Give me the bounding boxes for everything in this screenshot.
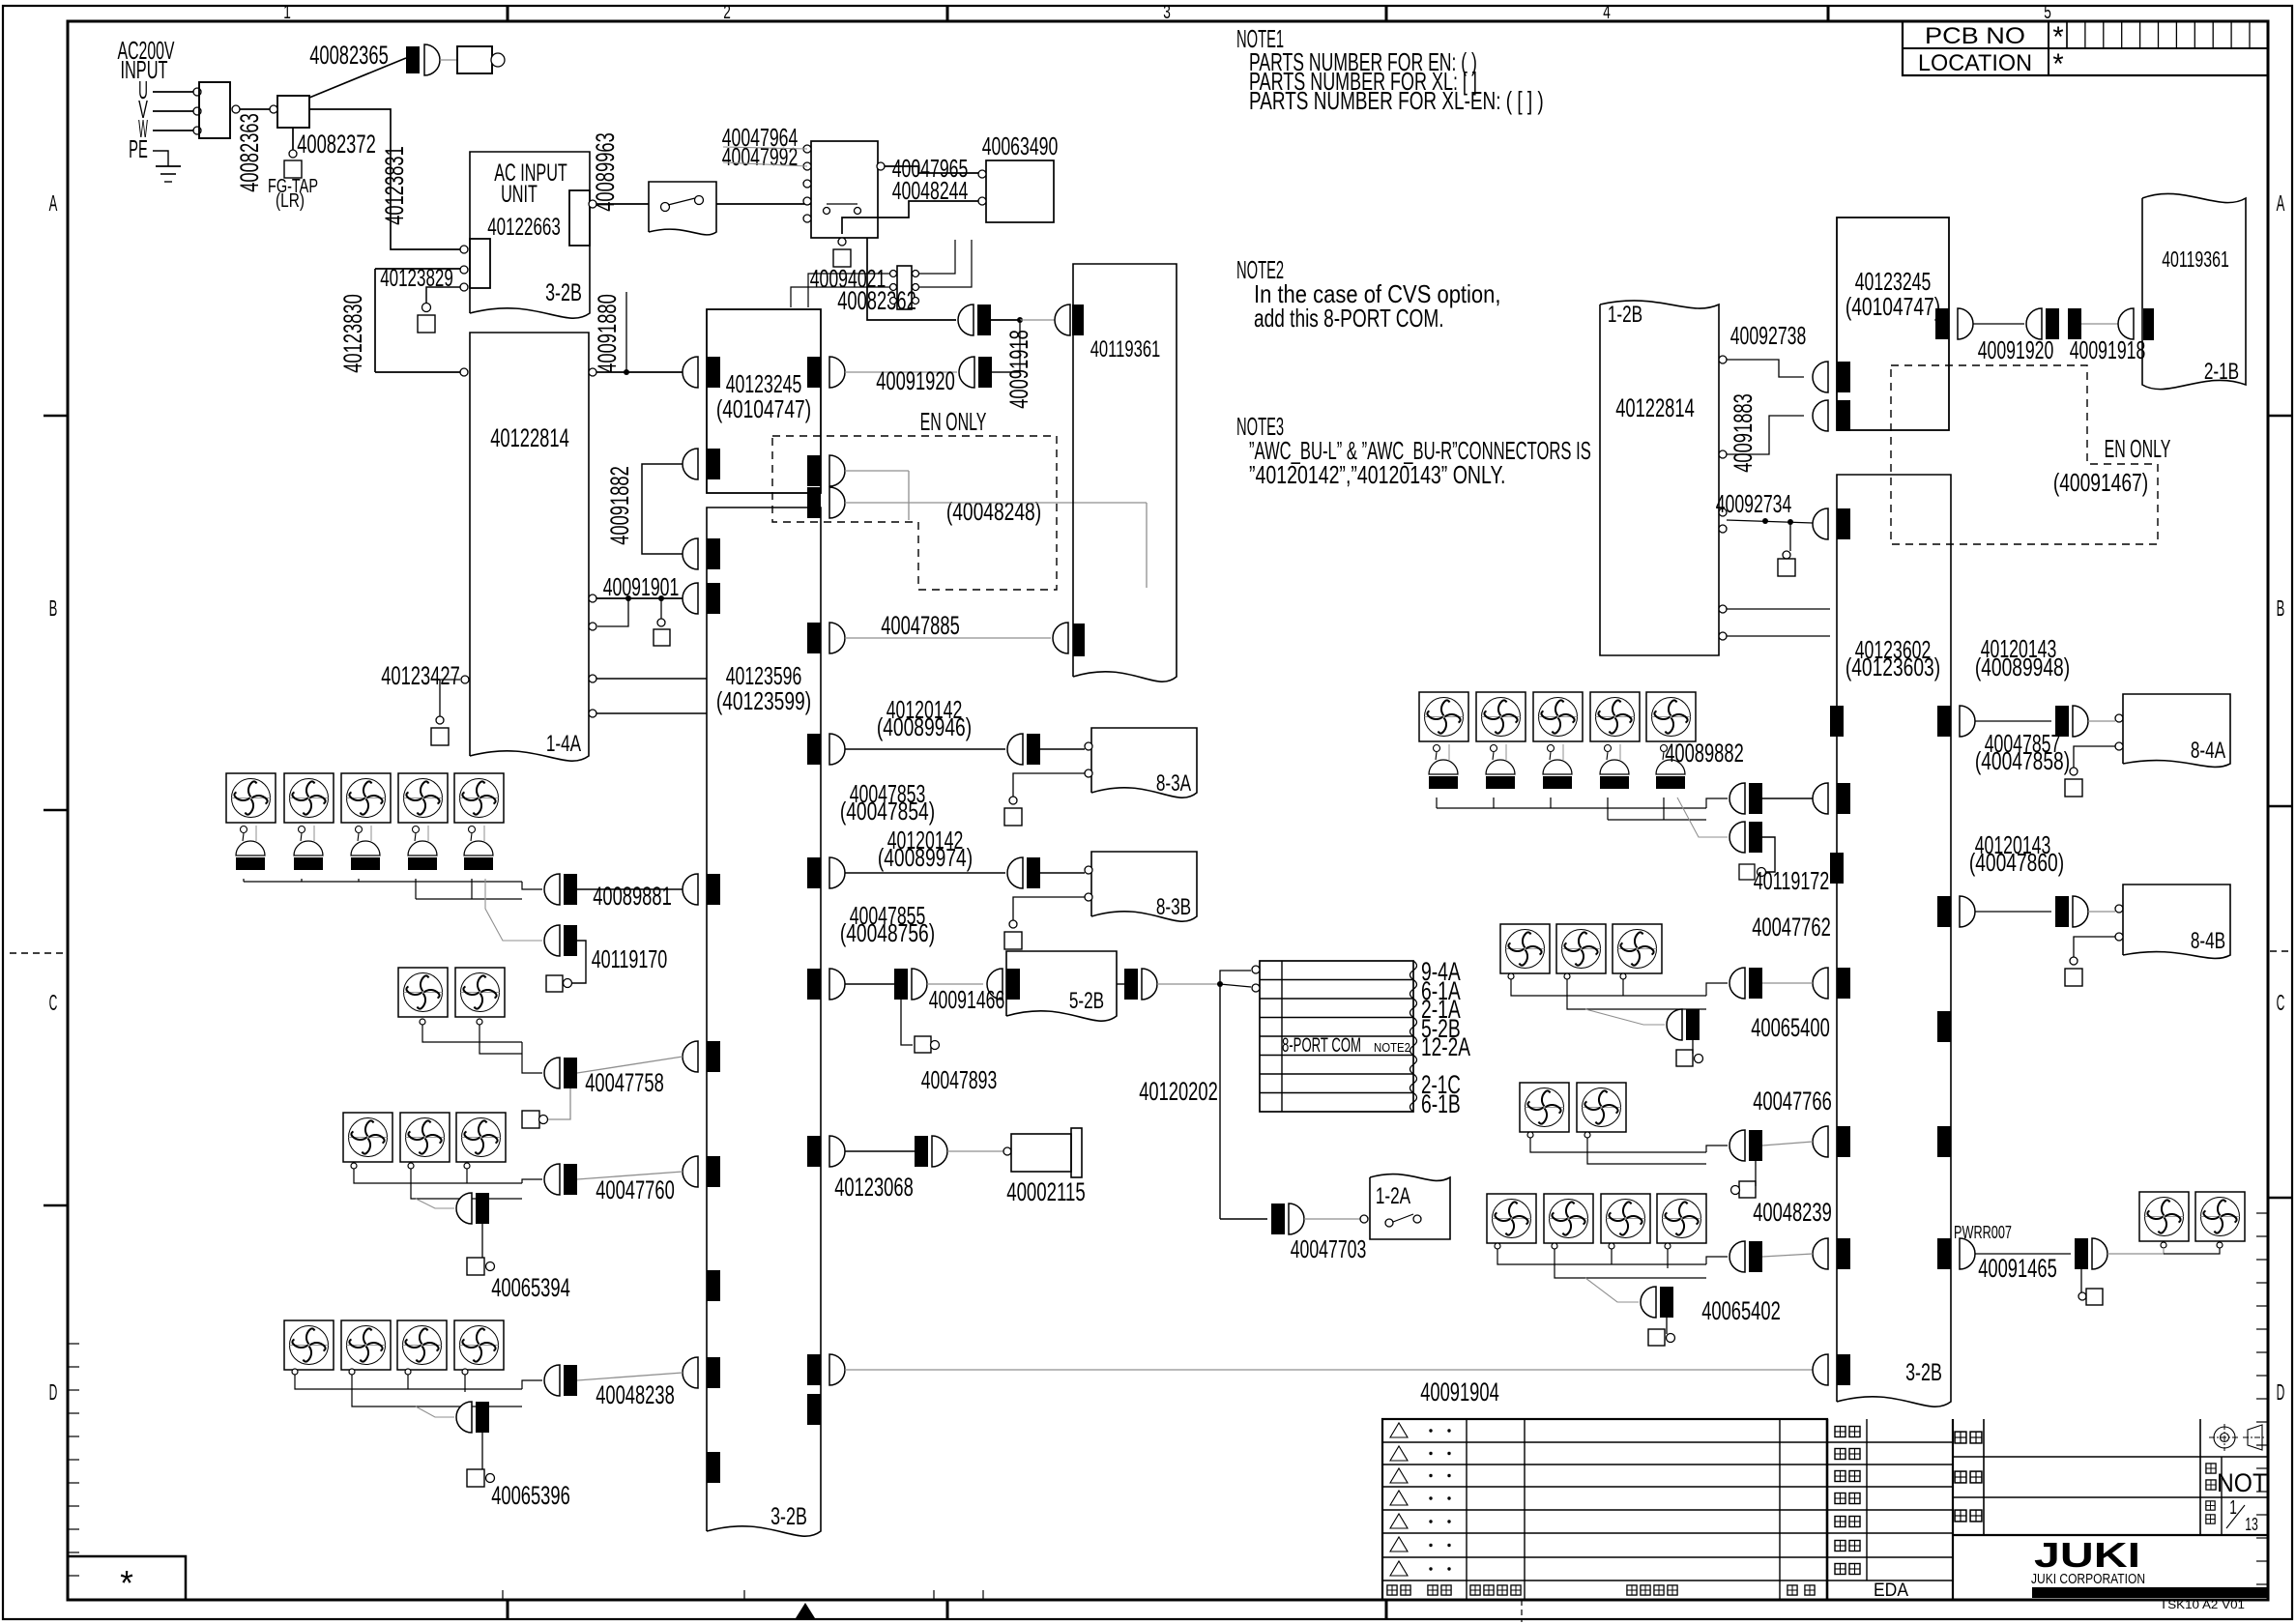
svg-text:(40104747): (40104747) <box>1846 292 1940 321</box>
svg-text:3-2B: 3-2B <box>545 279 582 306</box>
svg-text:40092738: 40092738 <box>1730 321 1807 350</box>
svg-text:NOTE2: NOTE2 <box>1374 1040 1410 1055</box>
svg-text:JUKI: JUKI <box>2034 1535 2140 1575</box>
svg-text:40119170: 40119170 <box>592 944 668 973</box>
svg-text:40065402: 40065402 <box>1701 1296 1781 1325</box>
svg-text:40082365: 40082365 <box>309 41 389 70</box>
svg-text:D: D <box>2277 1379 2285 1405</box>
svg-text:8-3A: 8-3A <box>1156 770 1191 797</box>
svg-text:TSK10 A2 V01: TSK10 A2 V01 <box>2160 1598 2245 1611</box>
svg-text:40065400: 40065400 <box>1751 1013 1830 1042</box>
svg-text:40123829: 40123829 <box>380 265 453 292</box>
svg-text:D: D <box>49 1379 58 1405</box>
svg-text:40089963: 40089963 <box>591 132 620 212</box>
svg-text:40091465: 40091465 <box>1978 1254 2057 1283</box>
svg-text:PCB NO: PCB NO <box>1925 23 2025 49</box>
svg-text:40091901: 40091901 <box>603 572 680 601</box>
svg-text:40123068: 40123068 <box>834 1173 914 1202</box>
svg-text:(40047858): (40047858) <box>1975 746 2070 775</box>
svg-text:C: C <box>2277 990 2285 1015</box>
svg-text:40123427: 40123427 <box>381 661 460 690</box>
svg-text:40047762: 40047762 <box>1752 913 1831 942</box>
svg-text:40048239: 40048239 <box>1753 1198 1832 1227</box>
svg-text:LOCATION: LOCATION <box>1918 50 2032 76</box>
svg-text:40065394: 40065394 <box>491 1273 570 1302</box>
svg-text:40119361: 40119361 <box>1090 336 1161 362</box>
svg-text:A: A <box>2277 190 2285 216</box>
svg-text:1: 1 <box>2229 1497 2237 1519</box>
svg-text:3: 3 <box>1163 2 1171 23</box>
svg-text:PWRR007: PWRR007 <box>1954 1223 2012 1242</box>
svg-text:13: 13 <box>2245 1515 2258 1534</box>
svg-text:4: 4 <box>1603 2 1611 23</box>
svg-text:1-2B: 1-2B <box>1608 302 1642 328</box>
svg-text:EDA: EDA <box>1874 1580 1908 1601</box>
svg-text:8-PORT COM: 8-PORT COM <box>1282 1034 1361 1057</box>
svg-text:40047760: 40047760 <box>596 1175 675 1204</box>
svg-text:40119172: 40119172 <box>1754 866 1830 895</box>
svg-text:40122814: 40122814 <box>490 423 569 452</box>
svg-text:40091883: 40091883 <box>1729 393 1758 473</box>
svg-text:*: * <box>2052 48 2064 80</box>
svg-text:40094021: 40094021 <box>810 264 886 293</box>
svg-text:A: A <box>49 190 58 216</box>
svg-text:40047893: 40047893 <box>921 1065 998 1094</box>
svg-text:(40047860): (40047860) <box>1969 848 2064 877</box>
svg-text:(40089946): (40089946) <box>877 712 972 741</box>
svg-text:B: B <box>49 595 58 621</box>
svg-text:40119361: 40119361 <box>2162 246 2229 272</box>
svg-text:(40048756): (40048756) <box>840 918 935 947</box>
svg-text:B: B <box>2277 595 2285 621</box>
svg-text:40047885: 40047885 <box>881 611 960 640</box>
svg-text:PE: PE <box>129 134 148 163</box>
svg-text:6-1B: 6-1B <box>1421 1089 1461 1118</box>
svg-text:2-1B: 2-1B <box>2204 359 2239 385</box>
svg-text:40123831: 40123831 <box>380 146 409 225</box>
svg-text:3-2B: 3-2B <box>770 1503 807 1530</box>
svg-text:40063490: 40063490 <box>982 131 1059 160</box>
svg-text:40120202: 40120202 <box>1139 1077 1218 1106</box>
svg-text:40047992: 40047992 <box>722 142 799 171</box>
svg-text:40047766: 40047766 <box>1753 1087 1832 1116</box>
svg-text:8-4B: 8-4B <box>2191 928 2225 954</box>
svg-text:5-2B: 5-2B <box>1069 988 1104 1014</box>
svg-text:40091466: 40091466 <box>929 985 1005 1014</box>
svg-text:40089882: 40089882 <box>1665 739 1744 768</box>
svg-text:40091918: 40091918 <box>2070 335 2146 364</box>
svg-text:(40089948): (40089948) <box>1975 652 2070 681</box>
svg-text:(40047854): (40047854) <box>840 797 935 826</box>
svg-text:40048238: 40048238 <box>596 1380 675 1409</box>
svg-text:40065396: 40065396 <box>491 1481 570 1510</box>
svg-text:40082363: 40082363 <box>235 113 264 192</box>
svg-text:C: C <box>49 990 58 1015</box>
svg-text:EN ONLY: EN ONLY <box>920 407 987 436</box>
svg-text:1-4A: 1-4A <box>546 731 581 757</box>
svg-text:EN ONLY: EN ONLY <box>2105 434 2171 463</box>
svg-text:8-3B: 8-3B <box>1156 894 1191 920</box>
svg-text:(LR): (LR) <box>276 190 305 212</box>
svg-text:40091904: 40091904 <box>1420 1377 1499 1406</box>
svg-text:12-2A: 12-2A <box>1421 1032 1470 1061</box>
svg-text:5: 5 <box>2044 2 2051 23</box>
svg-text:40092734: 40092734 <box>1716 489 1792 518</box>
svg-text:40123830: 40123830 <box>338 294 367 373</box>
svg-text:(40091467): (40091467) <box>2053 468 2148 497</box>
svg-text:(40048248): (40048248) <box>946 497 1041 526</box>
svg-text:add this 8-PORT COM.: add this 8-PORT COM. <box>1254 304 1444 333</box>
svg-text:1-2A: 1-2A <box>1376 1183 1410 1209</box>
svg-text:40047758: 40047758 <box>585 1068 664 1097</box>
svg-text:(40104747): (40104747) <box>716 394 811 423</box>
svg-text:40091918: 40091918 <box>1004 330 1033 409</box>
svg-text:40122663: 40122663 <box>487 214 561 241</box>
svg-text:40089881: 40089881 <box>593 882 672 911</box>
svg-text:PARTS NUMBER FOR XL-EN: ( [ ]: PARTS NUMBER FOR XL-EN: ( [ ] ) <box>1249 86 1544 115</box>
svg-text:(40123599): (40123599) <box>716 686 811 715</box>
svg-text:UNIT: UNIT <box>501 181 538 208</box>
svg-text:40047703: 40047703 <box>1291 1234 1367 1263</box>
svg-text:(40123603): (40123603) <box>1846 652 1940 681</box>
svg-text:40091920: 40091920 <box>1978 335 2054 364</box>
svg-text:3-2B: 3-2B <box>1905 1359 1942 1386</box>
svg-text:2: 2 <box>723 2 731 23</box>
svg-text:(40089974): (40089974) <box>878 843 973 872</box>
svg-text:40091882: 40091882 <box>605 466 634 545</box>
svg-text:40091920: 40091920 <box>876 366 955 395</box>
svg-text:40002115: 40002115 <box>1006 1177 1086 1206</box>
svg-text:40082372: 40082372 <box>297 130 376 159</box>
svg-text:”40120142”,”40120143” ONLY.: ”40120142”,”40120143” ONLY. <box>1249 460 1505 489</box>
svg-text:JUKI CORPORATION: JUKI CORPORATION <box>2031 1571 2145 1587</box>
svg-text:40091880: 40091880 <box>593 294 622 373</box>
svg-text:NOT: NOT <box>2217 1468 2267 1497</box>
svg-text:1: 1 <box>283 2 291 23</box>
svg-text:40122814: 40122814 <box>1615 393 1695 422</box>
svg-text:*: * <box>120 1563 133 1603</box>
svg-text:8-4A: 8-4A <box>2191 738 2225 764</box>
